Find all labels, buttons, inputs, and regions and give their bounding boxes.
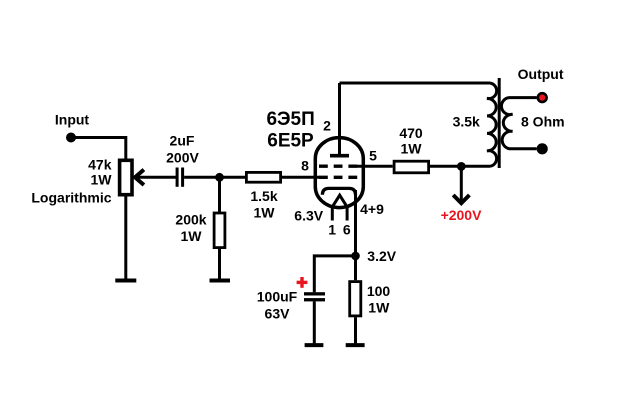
cathode: [322, 188, 355, 194]
wire R2 to grid pin 8: [282, 176, 320, 179]
capacitor C1 plates: [176, 168, 185, 187]
svg-text:100: 100: [367, 283, 391, 299]
R1 value labels 47k 1W Logarithmic: [31, 157, 112, 206]
transformer T1 primary winding: [487, 83, 497, 166]
resistor R3 200k body: [214, 213, 225, 248]
heater pin 6 stub: [346, 206, 349, 221]
tube V1 envelope: [315, 138, 363, 208]
R3 value labels 200k 1W: [175, 211, 206, 244]
svg-text:6E5P: 6E5P: [267, 131, 314, 152]
potentiometer R1 47k body: [120, 160, 132, 194]
+200V supply arrow: [453, 166, 469, 203]
C2 polarity plus mark: [297, 277, 308, 288]
node A junction dot: [215, 173, 224, 182]
svg-text:2uF: 2uF: [170, 133, 195, 149]
svg-text:63V: 63V: [265, 305, 291, 321]
capacitor C2 100uF plates: [304, 292, 325, 301]
svg-text:100uF: 100uF: [257, 288, 298, 304]
ground for R5: [346, 343, 365, 347]
svg-text:1.5k: 1.5k: [250, 188, 277, 204]
R5 bottom lead wire: [354, 317, 357, 343]
resistor R5 100 body: [350, 282, 361, 316]
pot bottom lead wire: [124, 196, 127, 279]
heater pin 1 stub: [331, 206, 334, 221]
wire node C to C2: [314, 256, 355, 292]
svg-text:47k: 47k: [88, 157, 112, 173]
wire node A down to R3: [218, 177, 221, 212]
screen grid g2 dashed line: [319, 165, 358, 168]
resistor R2 1.5k body: [246, 172, 280, 182]
svg-text:2: 2: [323, 118, 331, 134]
svg-text:8 Ohm: 8 Ohm: [521, 113, 565, 129]
C1 value labels 2uF 200V: [166, 133, 199, 166]
wire anode to transformer primary: [340, 82, 491, 85]
output terminal hot dot (red): [537, 92, 548, 103]
heater filament: [332, 195, 348, 208]
svg-text:3.2V: 3.2V: [367, 248, 396, 264]
wire wiper to C1: [135, 176, 176, 179]
node C junction dot 3.2V: [351, 252, 360, 261]
ground for pot: [115, 279, 136, 283]
R4 value labels 470 1W: [399, 125, 423, 156]
svg-text:+200V: +200V: [441, 207, 483, 223]
potentiometer wiper arrow: [135, 170, 144, 185]
R3 bottom lead wire: [218, 249, 221, 279]
C2 value labels 100uF 63V: [257, 288, 298, 321]
node B junction dot: [457, 162, 466, 171]
svg-text:470: 470: [399, 125, 423, 141]
output terminal return dot: [537, 143, 548, 154]
transformer secondary winding: [501, 98, 536, 149]
svg-text:1W: 1W: [401, 140, 423, 156]
input terminal dot: [66, 133, 76, 143]
svg-text:200k: 200k: [175, 211, 206, 227]
anode plate bar: [330, 154, 349, 158]
resistor R4 470 body: [394, 161, 429, 173]
wire g2 pin 5 to R4: [357, 165, 393, 168]
svg-text:5: 5: [369, 148, 377, 164]
control grid g1 dashed line: [319, 176, 359, 179]
svg-text:Logarithmic: Logarithmic: [31, 190, 111, 206]
svg-text:1W: 1W: [368, 299, 390, 315]
anode lead wire pin 2: [338, 83, 341, 154]
R5 value labels 100 1W: [367, 283, 391, 315]
svg-text:1W: 1W: [181, 228, 203, 244]
R2 value labels 1.5k 1W: [250, 188, 277, 220]
wire primary bottom to node B: [430, 165, 490, 168]
transformer core: [498, 78, 501, 168]
wire C1 to node A: [184, 176, 219, 179]
svg-text:6Э5П: 6Э5П: [266, 109, 314, 130]
svg-text:1W: 1W: [91, 171, 113, 187]
svg-text:8: 8: [301, 158, 309, 174]
ground for C2: [305, 343, 324, 347]
svg-text:Input: Input: [55, 112, 90, 128]
svg-text:1W: 1W: [254, 204, 276, 220]
tube V1 name labels: [266, 109, 314, 152]
C2 bottom lead wire: [313, 301, 316, 343]
svg-text:1: 1: [328, 221, 336, 237]
wire node C to R5: [354, 256, 357, 280]
svg-text:3.5k: 3.5k: [453, 113, 480, 129]
ground for R3: [210, 279, 231, 283]
cathode lead wire to 3.2V node: [354, 190, 357, 256]
svg-text:6.3V: 6.3V: [294, 208, 323, 224]
svg-text:6: 6: [343, 221, 351, 237]
svg-text:4+9: 4+9: [360, 201, 384, 217]
wire node A to R2: [220, 176, 246, 179]
wire input to pot top: [71, 138, 126, 161]
svg-text:Output: Output: [518, 66, 564, 82]
svg-text:200V: 200V: [166, 150, 199, 166]
